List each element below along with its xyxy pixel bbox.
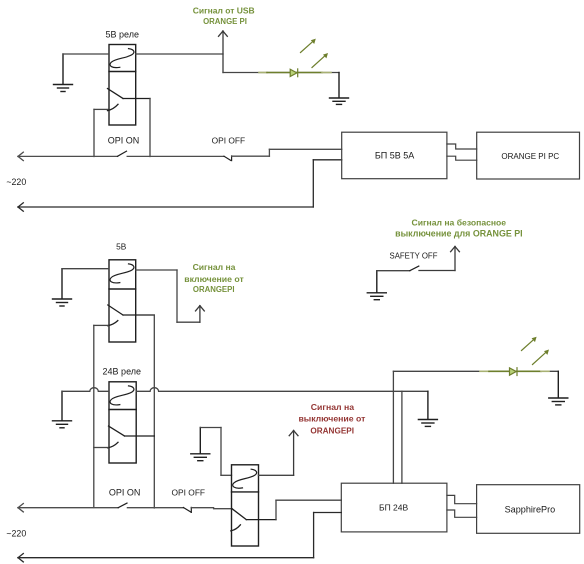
wire node A to LED D1 — [223, 72, 339, 74]
relay K3 divider — [109, 409, 136, 411]
svg-text:Сигнал на: Сигнал на — [311, 402, 354, 412]
relay K1 coil — [110, 49, 134, 68]
svg-text:OPI ON: OPI ON — [109, 487, 141, 497]
mains line L1 with arrow — [18, 152, 118, 160]
relay K3 coil — [110, 386, 134, 405]
switch SAFETY OFF blade — [410, 266, 419, 271]
mains line L2 with arrow — [18, 504, 118, 512]
relay K4 body — [232, 465, 259, 546]
ground G6 — [418, 391, 437, 426]
relay K4 coil — [233, 469, 257, 488]
switch OPI ON (top) blade — [118, 151, 127, 156]
LED D1 diode symbol — [290, 69, 298, 77]
wire relay K2 coil to arrow — [136, 270, 200, 322]
mains line N2 with arrow — [18, 513, 341, 562]
ground G7 (after LED D2) — [549, 371, 568, 405]
relay K1 common tick — [108, 104, 119, 110]
switch OPI OFF (bottom) blade — [183, 507, 191, 512]
wire relay K1 contact to bottom line — [149, 99, 151, 157]
wire relay K3 coil to PSU2/ground — [136, 388, 428, 392]
svg-text:5В: 5В — [116, 242, 127, 252]
label "Сигнал от USB ORANGE PI" — [193, 5, 255, 26]
relay K4 contact (NO) — [232, 509, 276, 520]
relay K3 common tick — [108, 442, 118, 448]
wire between switches (top) — [127, 155, 224, 157]
wire OPI OFF to relay K4 — [191, 508, 232, 509]
ground G2 (after LED D1) — [330, 73, 349, 105]
wire ground G5 to relay K3 coil — [62, 388, 109, 392]
wire relay K3 common — [94, 447, 108, 449]
wire relay K4 contact to PSU2 — [276, 500, 341, 519]
wire ground to switch SAFETY OFF — [377, 270, 410, 272]
printer U4 box — [477, 485, 580, 534]
ground G1 — [54, 54, 73, 92]
relay K3 contact (NO) — [109, 426, 155, 436]
wire ground G1 to relay K1 coil — [63, 53, 109, 55]
svg-text:OPI ON: OPI ON — [108, 135, 140, 145]
connector U3 to U4 pin1 — [447, 495, 477, 503]
svg-text:SAFETY OFF: SAFETY OFF — [390, 251, 438, 260]
switch OPI OFF (top) blade — [224, 156, 232, 161]
LED D2 wire segment — [480, 370, 549, 372]
svg-text:~220: ~220 — [6, 177, 26, 187]
svg-text:5В реле: 5В реле — [106, 30, 139, 40]
relay K2 contact (NO) — [108, 305, 155, 315]
svg-text:ORANGEPI: ORANGEPI — [193, 285, 235, 294]
wire branch down to PSU2 top — [401, 391, 403, 483]
relay K2 body — [109, 260, 136, 342]
svg-text:24В реле: 24В реле — [103, 366, 141, 376]
relay K3 body — [109, 382, 136, 463]
LED D1 light ray arrows — [301, 39, 329, 68]
svg-text:Сигнал на безопасное: Сигнал на безопасное — [411, 217, 506, 227]
wire OPI OFF to PSU1 — [232, 149, 342, 156]
relay K2 common tick — [108, 321, 118, 326]
PSU U1 box — [342, 132, 447, 179]
wire relay K1 coil to node A — [136, 53, 223, 55]
svg-text:Сигнал от USB: Сигнал от USB — [193, 5, 255, 15]
wire relay K1 common — [94, 109, 108, 156]
relay K4 divider — [232, 491, 259, 493]
svg-text:~220: ~220 — [6, 529, 26, 539]
wire relay K2 common down to mains — [94, 325, 108, 507]
wire between switches (bottom) — [127, 507, 183, 509]
svg-text:OPI OFF: OPI OFF — [212, 135, 246, 145]
svg-text:БП 24В: БП 24В — [379, 503, 409, 513]
svg-text:ORANGE PI PC: ORANGE PI PC — [501, 152, 559, 161]
computer U2 box — [477, 132, 580, 179]
wire switch to safety signal arrow — [419, 247, 459, 271]
relay K1 body — [109, 45, 136, 126]
label "Сигнал на включение от ORANGEPI" — [184, 262, 244, 294]
wire relay K2 contact down to mains — [153, 315, 155, 508]
mains line N1 with arrow — [18, 160, 342, 211]
svg-text:БП 5В 5А: БП 5В 5А — [375, 151, 414, 161]
ground G4 — [53, 269, 72, 306]
svg-text:выключение для ORANGE PI: выключение для ORANGE PI — [395, 229, 523, 239]
ground G8 (relay K4 coil) — [191, 428, 210, 461]
wire ground G8 to relay K4 coil — [200, 428, 231, 476]
label "Сигнал на безопасное выключение для ORANGE PI" — [395, 217, 523, 238]
signal arrow "Сигнал на выключение" — [289, 431, 298, 476]
connector U1 to U2 pin2 — [447, 156, 477, 160]
connector U1 to U2 pin1 — [447, 144, 477, 149]
relay K1 contact (NO) — [108, 89, 151, 99]
LED D2 wire from PSU2 — [393, 371, 558, 483]
svg-text:ORANGEPI: ORANGEPI — [310, 427, 354, 436]
svg-text:выключение от: выключение от — [298, 414, 366, 424]
relay K1 divider — [109, 71, 136, 73]
svg-text:OPI OFF: OPI OFF — [172, 487, 206, 497]
switch OPI ON (bottom) blade — [118, 503, 127, 508]
wire ground G4 to relay K2 coil — [62, 268, 109, 270]
label "Сигнал на выключение от ORANGEPI" — [298, 402, 366, 436]
LED D1 wire segment — [259, 72, 331, 74]
signal arrow "Сигнал от USB" — [219, 31, 228, 73]
svg-text:Сигнал на: Сигнал на — [193, 262, 236, 272]
svg-text:SapphirePro: SapphirePro — [505, 505, 556, 515]
svg-text:ORANGE PI: ORANGE PI — [203, 17, 247, 26]
ground G3 (safety) — [367, 271, 386, 300]
wire relay K4 coil to arrow — [259, 474, 294, 476]
relay K4 common tick — [231, 525, 241, 531]
svg-text:включение от: включение от — [184, 274, 244, 284]
LED D2 diode symbol — [510, 368, 518, 376]
connector U3 to U4 pin2 — [447, 510, 477, 517]
signal arrow "Сигнал на включение" — [196, 306, 205, 323]
ground G5 — [53, 391, 72, 428]
relay K2 coil — [110, 264, 134, 283]
relay K2 divider — [109, 288, 136, 290]
PSU U3 box — [341, 483, 447, 532]
LED D2 light ray arrows — [522, 337, 550, 365]
